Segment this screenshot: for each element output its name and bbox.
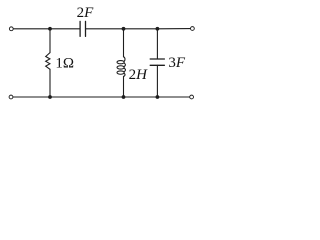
svg-text:2H: 2H (129, 67, 149, 83)
wire: top lead of resistor R1 (49, 29, 51, 53)
wire top rail: node A to capacitor C1 (50, 28, 80, 30)
wire bottom rail: node F to right terminal (157, 96, 189, 98)
wire top rail: left terminal to node A (14, 28, 51, 30)
node B (junction dot, top of L1) (122, 27, 126, 31)
wire bottom rail: left terminal to node D (13, 96, 50, 98)
node A (junction dot, top of R1) (48, 27, 52, 31)
terminal top-left (9, 27, 13, 31)
wire top rail: node C to right terminal (157, 28, 190, 30)
wire: top lead of capacitor C2 (156, 29, 158, 59)
wire: bottom lead of resistor R1 (49, 69, 51, 97)
terminal bottom-left (9, 95, 13, 99)
node C (junction dot, top of C2) (156, 27, 160, 31)
wire bottom rail: node E to node F (124, 96, 158, 98)
inductor L1 (coil of 3 loops) (117, 57, 125, 77)
node D (junction dot, bottom of R1) (48, 95, 52, 99)
wire: bottom lead of inductor L1 (123, 76, 125, 97)
wire top rail: capacitor C1 to node B (86, 28, 124, 30)
resistor R1 (zigzag) (46, 53, 50, 70)
svg-text:2F: 2F (77, 5, 95, 21)
node E (junction dot, bottom of L1) (122, 95, 126, 99)
wire: bottom lead of capacitor C2 (156, 65, 158, 97)
node F (junction dot, bottom of C2) (156, 95, 160, 99)
terminal bottom-right (190, 95, 194, 99)
wire top rail: node B to node C (124, 28, 158, 30)
svg-text:3F: 3F (168, 55, 186, 71)
capacitor C2 3F (shunt) (150, 59, 164, 65)
wire bottom rail: node D to node E (50, 96, 124, 98)
svg-text:1Ω: 1Ω (55, 56, 74, 72)
terminal top-right (191, 27, 195, 31)
capacitor C1 2F (series, top rail) (80, 21, 85, 36)
wire: top lead of inductor L1 (123, 29, 125, 57)
